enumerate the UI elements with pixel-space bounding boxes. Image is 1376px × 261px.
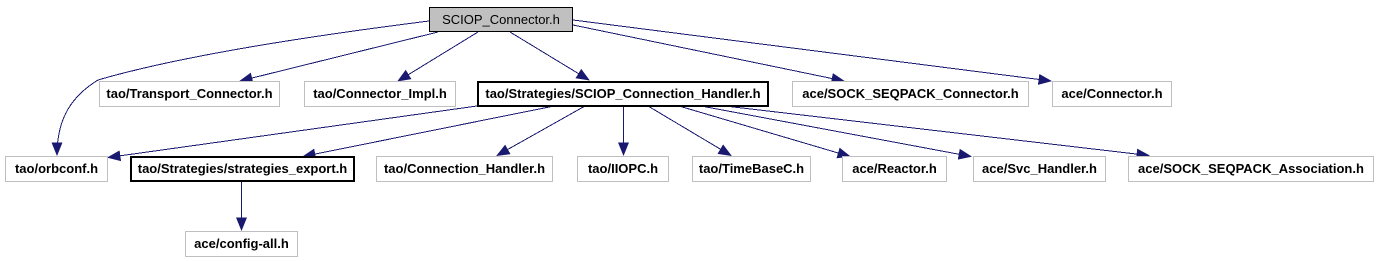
node tao/orbconf.h bbox=[5, 156, 108, 182]
wire strategies_export.h -> ace/config-all.h bbox=[241, 182, 243, 230]
node tao/Connector_Impl.h bbox=[304, 81, 456, 107]
wire SCIOP_Connection_Handler.h -> ace/Svc_Handler.h bbox=[701, 106, 971, 157]
wire SCIOP_Connection_Handler.h -> tao/Strategies/strategies_export.h bbox=[303, 106, 554, 157]
node ace/Reactor.h bbox=[842, 156, 947, 182]
node tao/Connection_Handler.h bbox=[376, 156, 553, 182]
node ace/Connector.h bbox=[1052, 81, 1172, 107]
wire SCIOP_Connection_Handler.h -> tao/Connection_Handler.h bbox=[497, 106, 585, 156]
node tao/Strategies/strategies_export.h bbox=[130, 156, 355, 182]
node ace/SOCK_SEQPACK_Connector.h bbox=[792, 81, 1029, 107]
node ace/Svc_Handler.h bbox=[973, 156, 1106, 182]
node tao/IIOPC.h bbox=[577, 156, 669, 182]
wire SCIOP_Connector.h -> tao/Transport_Connector.h bbox=[240, 32, 438, 81]
node tao/Strategies/SCIOP_Connection_Handler.h bbox=[477, 81, 769, 107]
wire SCIOP_Connection_Handler.h -> ace/SOCK_SEQPACK_Association.h bbox=[725, 106, 1149, 156]
wire SCIOP_Connector.h -> ace/SOCK_SEQPACK_Connector.h bbox=[573, 25, 844, 81]
node tao/TimeBaseC.h bbox=[692, 156, 811, 182]
node tao/Transport_Connector.h bbox=[99, 81, 280, 107]
node SCIOP_Connector.h bbox=[429, 7, 573, 32]
wire SCIOP_Connector.h -> tao/orbconf.h bbox=[57, 21, 429, 155]
wire SCIOP_Connector.h -> tao/Connector_Impl.h bbox=[398, 32, 478, 81]
node ace/config-all.h bbox=[185, 231, 298, 257]
wire SCIOP_Connection_Handler.h -> tao/TimeBaseC.h bbox=[648, 106, 731, 156]
wire SCIOP_Connector.h -> ace/Connector.h bbox=[573, 20, 1051, 81]
wire SCIOP_Connection_Handler.h -> ace/Reactor.h bbox=[679, 106, 850, 157]
wire SCIOP_Connection_Handler.h -> tao/IIOPC.h bbox=[623, 106, 625, 155]
wire SCIOP_Connector.h -> tao/Strategies/SCIOP_Connection_Handler.h bbox=[510, 32, 589, 80]
node ace/SOCK_SEQPACK_Association.h bbox=[1128, 156, 1374, 182]
wire SCIOP_Connection_Handler.h -> tao/orbconf.h bbox=[108, 106, 477, 158]
